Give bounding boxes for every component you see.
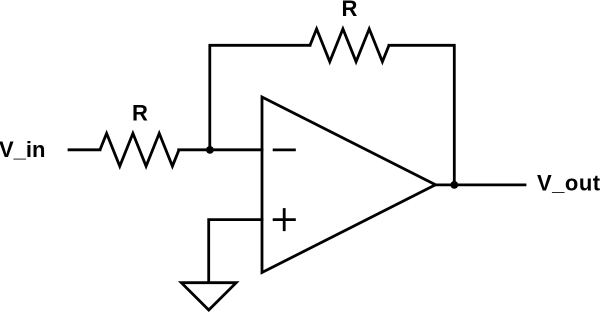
resistor R2 (feedback) bbox=[310, 29, 389, 62]
node A (inverting input junction) bbox=[206, 146, 214, 154]
wire non-inverting input to ground bbox=[209, 220, 262, 282]
svg-text:R: R bbox=[341, 0, 357, 21]
wire V_in lead bbox=[69, 148, 100, 151]
ground bbox=[181, 283, 236, 310]
wire output bbox=[436, 183, 526, 186]
svg-text:V_out: V_out bbox=[537, 170, 600, 195]
wire feedback right: across and down to output node bbox=[389, 45, 454, 185]
op-amp plus pin label bbox=[273, 208, 296, 231]
op-amp minus pin label bbox=[273, 148, 296, 151]
resistor R1 (input) bbox=[100, 133, 179, 166]
svg-text:R: R bbox=[132, 101, 148, 126]
svg-text:V_in: V_in bbox=[0, 137, 45, 162]
op-amp U1 bbox=[262, 97, 436, 273]
node B (output junction) bbox=[450, 181, 458, 189]
wire feedback left: node up and across to R2 bbox=[210, 45, 310, 150]
wire resistor to inverting-input node bbox=[179, 148, 262, 151]
